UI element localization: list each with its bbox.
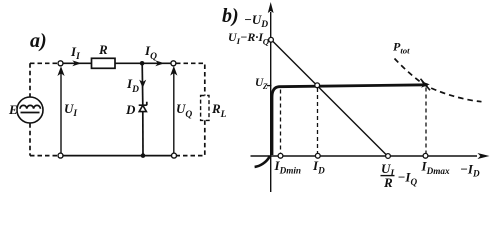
wire dashed: left vertical, source branch upper [29,63,31,97]
tick U_Z on voltage axis [267,85,272,87]
voltage arrow U_Q (output voltage) [170,66,177,153]
zener diode D [139,102,147,112]
node: I_Dmax on current axis [423,153,428,158]
dashed guide: I_Dmax vertical [425,88,427,154]
dashed guide: I_Dmin vertical [280,90,282,154]
current arrow I_Q [155,60,164,66]
wire: top rail, resistor to output terminal [115,62,171,64]
junction: top node (diode tap) [140,61,145,66]
wire dashed: output terminal to load top corner [176,63,205,95]
label fraction U_I over R [381,161,395,190]
zener characteristic: forward branch tail [255,156,270,167]
node: input bottom terminal [58,153,63,158]
characteristic end arrowhead [421,81,430,88]
resistor R (series resistor) [92,58,116,68]
wire: top rail, input terminal to resistor [63,62,92,64]
load resistor R_L [201,96,209,121]
wire: bottom rail [63,155,172,157]
node: I_D on current axis [315,153,320,158]
wire: diode branch upper [141,63,144,105]
svg-text:R: R [383,175,393,190]
wire: diode branch lower [142,112,144,156]
svg-text:b): b) [222,5,239,27]
svg-text:E: E [8,102,18,117]
node: I_Dmin on current axis [278,153,283,158]
node: operating point on plateau [315,83,320,88]
dashed guide: I_D vertical [317,88,319,153]
wire dashed: bottom-left corner to input terminal [30,155,58,157]
wire dashed: top-left corner to input terminal [30,62,58,64]
current arrow I_D [139,80,146,88]
node: output top terminal [171,61,176,66]
load line (resistor line U_I-R*I) [272,40,388,156]
junction: bottom node (diode to bottom rail) [141,153,146,158]
axis x (current -I_D) [251,153,490,159]
hyperbola crossing segment at plateau end [421,79,431,90]
node: input top terminal [58,61,63,66]
node: output bottom terminal [172,153,177,158]
node: load-line intercept on voltage axis [269,37,274,42]
axis y (voltage -U_D) [268,2,274,192]
source E (rectified AC source symbol) [17,97,43,123]
voltage arrow U_I (input voltage) [57,66,64,153]
svg-text:R: R [98,42,108,57]
current arrow I_I [72,60,81,66]
wire dashed: load bottom to output terminal [177,120,205,155]
svg-text:a): a) [30,30,47,52]
zener characteristic: breakdown branch with knee and U_Z plateau [272,85,428,155]
wire dashed: left vertical, source branch lower [29,123,31,155]
svg-text:D: D [125,102,136,117]
power hyperbola P_tot (dashed) [395,59,482,102]
node: U_I/R-I_Q on current axis [386,154,391,159]
